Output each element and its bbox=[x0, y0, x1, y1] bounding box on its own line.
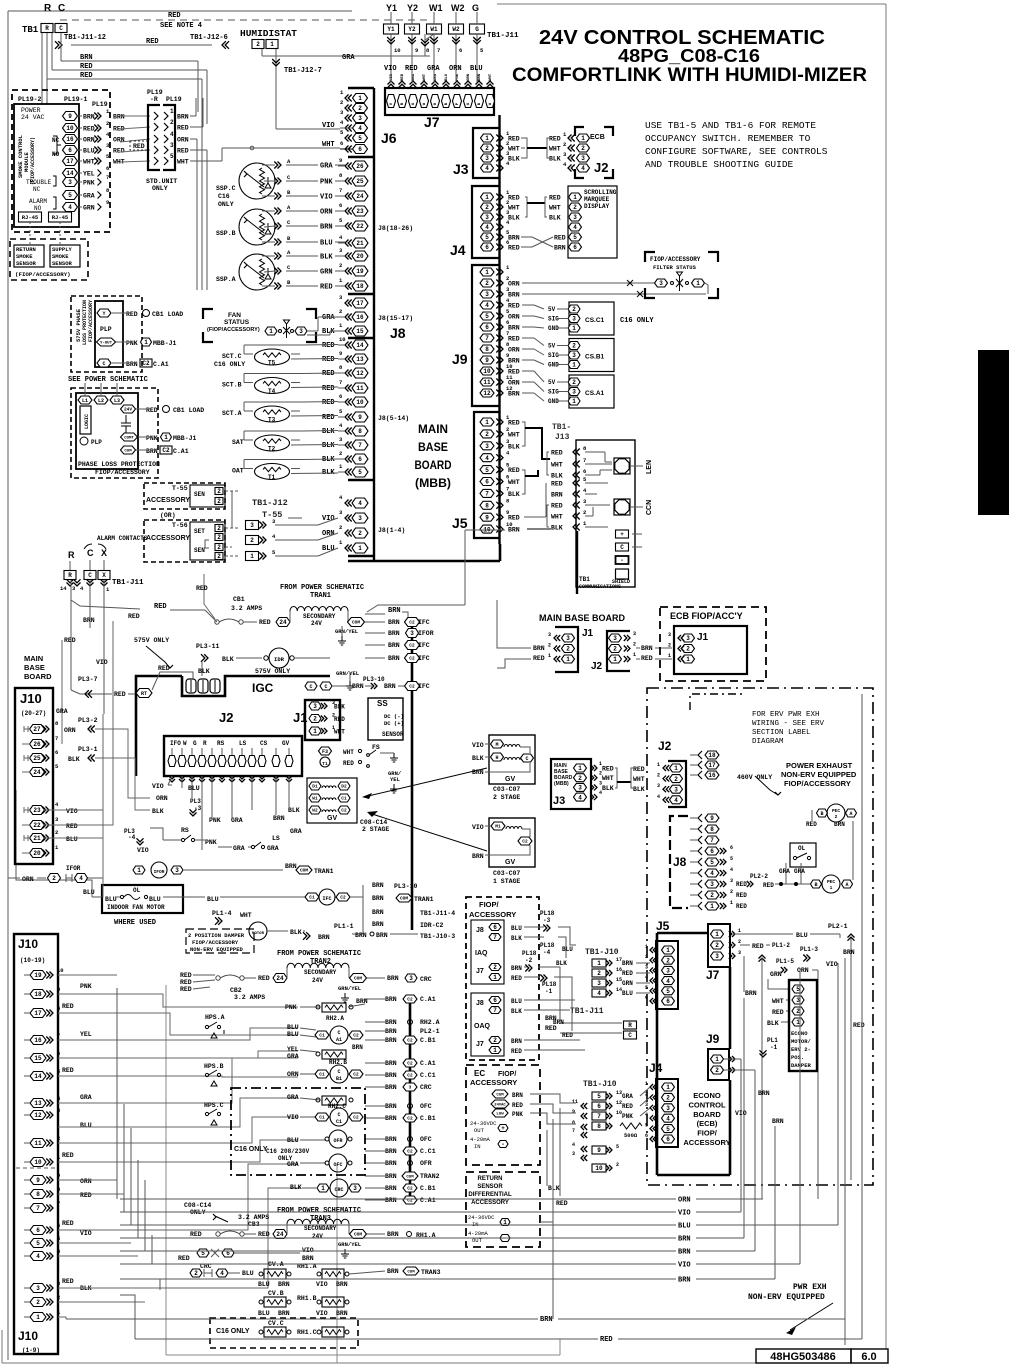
svg-text:BLK: BLK bbox=[68, 756, 80, 763]
svg-text:IAQ: IAQ bbox=[475, 950, 488, 957]
svg-text:WHT: WHT bbox=[772, 998, 784, 1005]
svg-text:M1: M1 bbox=[495, 824, 501, 830]
svg-text:+: + bbox=[501, 1125, 505, 1132]
svg-text:RED: RED bbox=[180, 979, 192, 986]
svg-text:7: 7 bbox=[55, 735, 58, 742]
svg-text:FILTER STATUS: FILTER STATUS bbox=[653, 264, 697, 271]
svg-text:9: 9 bbox=[339, 157, 342, 164]
svg-text:1: 1 bbox=[581, 135, 585, 142]
svg-text:L2: L2 bbox=[98, 398, 104, 404]
svg-text:1: 1 bbox=[170, 108, 174, 115]
svg-text:7: 7 bbox=[493, 934, 497, 941]
svg-text:BRN: BRN bbox=[385, 1185, 397, 1192]
svg-text:C: C bbox=[309, 684, 312, 690]
svg-text:ORN: ORN bbox=[287, 1071, 299, 1078]
svg-text:NO: NO bbox=[34, 205, 42, 212]
svg-text:-: - bbox=[620, 557, 624, 564]
svg-text:BRN: BRN bbox=[843, 949, 855, 956]
svg-text:7: 7 bbox=[485, 335, 489, 342]
svg-text:DC (+): DC (+) bbox=[384, 720, 404, 727]
svg-text:1: 1 bbox=[572, 398, 576, 405]
svg-text:1: 1 bbox=[485, 135, 489, 142]
svg-text:IFOR: IFOR bbox=[418, 630, 434, 637]
svg-text:RED: RED bbox=[508, 336, 520, 343]
svg-text:BRN: BRN bbox=[385, 1115, 397, 1122]
svg-text:D1: D1 bbox=[312, 784, 318, 790]
svg-text:2: 2 bbox=[578, 775, 582, 782]
svg-text:14: 14 bbox=[356, 342, 364, 349]
svg-text:8: 8 bbox=[710, 826, 714, 833]
svg-text:PNK: PNK bbox=[456, 73, 460, 81]
svg-text:6: 6 bbox=[68, 147, 72, 154]
svg-text:4: 4 bbox=[573, 224, 577, 231]
svg-text:16: 16 bbox=[708, 772, 716, 779]
svg-text:C: C bbox=[337, 1112, 340, 1118]
svg-text:48HG503486: 48HG503486 bbox=[770, 1351, 835, 1363]
svg-text:2: 2 bbox=[548, 643, 551, 649]
svg-text:24: 24 bbox=[276, 975, 284, 982]
svg-text:BRN: BRN bbox=[533, 645, 545, 652]
svg-text:BLU: BLU bbox=[678, 1223, 691, 1231]
svg-text:J9: J9 bbox=[706, 1032, 720, 1046]
svg-text:IN: IN bbox=[474, 1143, 481, 1150]
svg-text:OUT: OUT bbox=[474, 1127, 485, 1134]
svg-text:(20-27): (20-27) bbox=[21, 710, 46, 717]
svg-text:CB2: CB2 bbox=[230, 987, 242, 994]
svg-text:3: 3 bbox=[668, 632, 671, 638]
svg-text:PLP: PLP bbox=[91, 439, 102, 446]
svg-text:COMT: COMT bbox=[124, 436, 134, 440]
svg-text:COM: COM bbox=[352, 620, 360, 626]
svg-text:WHT: WHT bbox=[508, 146, 520, 153]
svg-text:3: 3 bbox=[738, 950, 741, 956]
svg-text:AND TROUBLE SHOOTING GUIDE: AND TROUBLE SHOOTING GUIDE bbox=[645, 159, 794, 170]
svg-text:OL: OL bbox=[133, 887, 141, 894]
svg-text:2: 2 bbox=[217, 544, 221, 551]
svg-text:5: 5 bbox=[485, 467, 489, 474]
svg-text:BRN: BRN bbox=[385, 1084, 397, 1091]
svg-text:C2: C2 bbox=[353, 1072, 359, 1078]
svg-text:RED: RED bbox=[562, 1032, 573, 1039]
svg-text:ACCESSORY: ACCESSORY bbox=[469, 910, 516, 919]
svg-text:PNK: PNK bbox=[285, 1004, 297, 1011]
svg-text:2: 2 bbox=[835, 814, 838, 820]
svg-text:FAN: FAN bbox=[228, 312, 241, 319]
svg-text:G: G bbox=[193, 740, 197, 747]
svg-text:RED: RED bbox=[508, 245, 520, 252]
svg-text:OFC: OFC bbox=[420, 1103, 432, 1110]
svg-text:3: 3 bbox=[710, 881, 714, 888]
svg-text:TB1-J11-4: TB1-J11-4 bbox=[420, 910, 455, 917]
svg-text:GRN: GRN bbox=[83, 205, 95, 212]
svg-text:GV: GV bbox=[505, 776, 515, 783]
svg-text:ORN: ORN bbox=[508, 347, 520, 354]
svg-text:2: 2 bbox=[572, 343, 576, 350]
svg-text:2: 2 bbox=[572, 379, 576, 386]
svg-text:5: 5 bbox=[710, 859, 714, 866]
svg-text:8: 8 bbox=[485, 346, 489, 353]
svg-text:4: 4 bbox=[170, 131, 174, 138]
svg-text:OFC: OFC bbox=[420, 1136, 432, 1143]
svg-text:1: 1 bbox=[830, 885, 833, 891]
svg-text:24V: 24V bbox=[312, 977, 323, 984]
svg-text:BRN: BRN bbox=[511, 1038, 522, 1045]
svg-text:C1: C1 bbox=[341, 796, 347, 802]
svg-text:PNK: PNK bbox=[83, 180, 95, 187]
svg-text:2: 2 bbox=[493, 964, 497, 971]
svg-text:3: 3 bbox=[578, 785, 582, 792]
svg-text:PL19: PL19 bbox=[166, 96, 182, 103]
svg-text:2: 2 bbox=[493, 1037, 497, 1044]
svg-text:6: 6 bbox=[358, 146, 362, 153]
svg-text:RED: RED bbox=[602, 766, 614, 773]
svg-text:VIO: VIO bbox=[472, 824, 484, 831]
svg-text:T2: T2 bbox=[268, 446, 276, 453]
svg-text:1: 1 bbox=[566, 656, 570, 663]
svg-text:VIO: VIO bbox=[320, 194, 333, 202]
svg-text:RED: RED bbox=[146, 38, 159, 46]
svg-text:1: 1 bbox=[321, 1185, 325, 1192]
svg-text:TB1-J10: TB1-J10 bbox=[583, 1080, 617, 1089]
svg-text:24 VAC: 24 VAC bbox=[21, 114, 45, 121]
svg-text:BOARD: BOARD bbox=[24, 672, 52, 681]
svg-text:BLK: BLK bbox=[320, 254, 333, 262]
svg-text:C16 ONLY: C16 ONLY bbox=[620, 317, 654, 325]
svg-text:C: C bbox=[525, 756, 528, 762]
svg-text:11: 11 bbox=[483, 379, 491, 386]
svg-text:RED: RED bbox=[641, 655, 653, 662]
svg-text:(OR): (OR) bbox=[160, 512, 176, 519]
svg-text:6: 6 bbox=[493, 924, 497, 931]
svg-text:3: 3 bbox=[572, 389, 576, 396]
svg-text:COMFORTLINK WITH HUMIDI-MIZE: COMFORTLINK WITH HUMIDI-MIZER bbox=[512, 65, 867, 86]
svg-text:OFR: OFR bbox=[420, 1160, 432, 1167]
svg-text:DIAGRAM: DIAGRAM bbox=[752, 738, 784, 746]
svg-text:2: 2 bbox=[645, 1091, 648, 1097]
svg-text:17: 17 bbox=[356, 300, 364, 307]
svg-text:RETURN: RETURN bbox=[478, 1176, 503, 1182]
svg-text:FIOP/ACCESSORY: FIOP/ACCESSORY bbox=[88, 300, 94, 342]
svg-text:3: 3 bbox=[409, 1085, 412, 1091]
svg-text:2: 2 bbox=[686, 646, 690, 653]
svg-text:9: 9 bbox=[339, 350, 342, 357]
svg-text:21: 21 bbox=[356, 240, 364, 247]
svg-text:PL1-3: PL1-3 bbox=[800, 946, 818, 953]
svg-text:FIOP/: FIOP/ bbox=[498, 1071, 516, 1078]
svg-text:BRN: BRN bbox=[508, 325, 520, 332]
svg-text:J2: J2 bbox=[591, 661, 603, 672]
svg-text:J10: J10 bbox=[18, 1329, 38, 1343]
svg-text:RED: RED bbox=[133, 143, 145, 150]
svg-text:16: 16 bbox=[356, 314, 364, 321]
svg-text:1: 1 bbox=[730, 900, 733, 906]
svg-text:C2: C2 bbox=[407, 1149, 413, 1155]
svg-text:BRN: BRN bbox=[678, 1249, 691, 1257]
svg-text:(FIOP/ACCESSORY): (FIOP/ACCESSORY) bbox=[15, 271, 71, 278]
svg-text:ORN: ORN bbox=[64, 727, 76, 734]
svg-text:2: 2 bbox=[36, 1299, 40, 1306]
svg-text:RED: RED bbox=[320, 284, 333, 292]
svg-text:2: 2 bbox=[313, 716, 317, 723]
svg-text:MARQUEE: MARQUEE bbox=[584, 196, 610, 203]
svg-text:Y: Y bbox=[102, 311, 105, 317]
svg-text:3: 3 bbox=[36, 1285, 40, 1292]
svg-text:FROM POWER SCHEMATIC: FROM POWER SCHEMATIC bbox=[277, 950, 361, 958]
svg-text:17: 17 bbox=[708, 762, 716, 769]
svg-text:3: 3 bbox=[573, 214, 577, 221]
svg-text:RED: RED bbox=[511, 975, 522, 982]
svg-text:(FIOP/ACCESSORY): (FIOP/ACCESSORY) bbox=[30, 137, 36, 185]
svg-text:PL19-2: PL19-2 bbox=[18, 96, 42, 103]
svg-text:RED: RED bbox=[158, 665, 170, 672]
svg-text:G: G bbox=[472, 3, 479, 13]
svg-text:18: 18 bbox=[34, 991, 42, 998]
svg-text:ALARM: ALARM bbox=[29, 198, 47, 205]
svg-text:5: 5 bbox=[730, 856, 733, 862]
svg-text:ORN: ORN bbox=[434, 73, 438, 81]
svg-text:TB1-J12-6: TB1-J12-6 bbox=[190, 34, 228, 42]
svg-text:9: 9 bbox=[572, 1109, 575, 1115]
svg-text:C2: C2 bbox=[409, 656, 415, 662]
svg-text:GRN/YEL: GRN/YEL bbox=[336, 670, 360, 677]
svg-text:RED: RED bbox=[180, 972, 192, 979]
svg-text:GRN: GRN bbox=[622, 980, 633, 987]
svg-text:GRA: GRA bbox=[342, 54, 355, 62]
svg-text:RED: RED bbox=[177, 148, 189, 155]
svg-text:PHASE LOSS PROTECTION: PHASE LOSS PROTECTION bbox=[78, 461, 160, 468]
svg-text:RED: RED bbox=[128, 613, 140, 620]
svg-text:RED: RED bbox=[736, 892, 747, 899]
svg-text:C1: C1 bbox=[319, 1033, 325, 1039]
svg-text:BRN: BRN bbox=[83, 617, 95, 624]
svg-text:WHT: WHT bbox=[549, 146, 561, 153]
svg-text:10: 10 bbox=[394, 47, 401, 54]
svg-text:PWR EXH: PWR EXH bbox=[793, 1283, 827, 1292]
svg-text:C1: C1 bbox=[319, 1115, 325, 1121]
svg-text:-3: -3 bbox=[543, 917, 551, 924]
svg-text:1: 1 bbox=[144, 339, 148, 346]
svg-text:3: 3 bbox=[657, 783, 660, 789]
svg-text:RED: RED bbox=[554, 235, 566, 242]
svg-text:5: 5 bbox=[666, 988, 670, 995]
svg-text:SCT.A: SCT.A bbox=[222, 410, 242, 417]
svg-text:ORN: ORN bbox=[678, 1197, 691, 1205]
svg-text:COM: COM bbox=[496, 1093, 504, 1097]
svg-text:3: 3 bbox=[299, 328, 303, 335]
svg-text:OFR: OFR bbox=[333, 1138, 342, 1144]
svg-text:SENSOR: SENSOR bbox=[16, 260, 37, 267]
svg-text:ECB FIOP/ACC'Y: ECB FIOP/ACC'Y bbox=[670, 611, 743, 621]
svg-text:5: 5 bbox=[170, 153, 174, 160]
svg-text:RED: RED bbox=[600, 1336, 613, 1344]
svg-text:ONLY: ONLY bbox=[218, 201, 234, 208]
svg-text:4: 4 bbox=[597, 990, 601, 997]
svg-text:RED: RED bbox=[508, 303, 520, 310]
svg-text:3: 3 bbox=[645, 964, 648, 970]
svg-text:COM: COM bbox=[406, 1175, 414, 1179]
svg-text:BLK: BLK bbox=[548, 1185, 560, 1192]
svg-text:IFO: IFO bbox=[170, 740, 181, 747]
svg-text:PL18: PL18 bbox=[540, 942, 555, 949]
svg-text:VIO: VIO bbox=[678, 1210, 691, 1218]
svg-text:25: 25 bbox=[356, 178, 364, 185]
svg-text:A: A bbox=[849, 811, 852, 817]
svg-text:6.0: 6.0 bbox=[861, 1351, 876, 1363]
svg-text:6: 6 bbox=[710, 848, 714, 855]
svg-text:SSP.B: SSP.B bbox=[216, 230, 236, 237]
svg-text:4: 4 bbox=[485, 302, 489, 309]
svg-text:6: 6 bbox=[485, 324, 489, 331]
svg-text:C.C1: C.C1 bbox=[420, 1148, 436, 1155]
svg-text:BRN: BRN bbox=[80, 54, 93, 62]
svg-text:BLU: BLU bbox=[258, 1310, 270, 1317]
svg-text:BLK: BLK bbox=[508, 156, 520, 163]
svg-text:5: 5 bbox=[485, 234, 489, 241]
svg-text:GRA: GRA bbox=[427, 65, 440, 73]
svg-text:3: 3 bbox=[485, 155, 489, 162]
svg-text:3: 3 bbox=[358, 115, 362, 122]
svg-text:BRN: BRN bbox=[508, 391, 520, 398]
svg-text:BLU: BLU bbox=[562, 946, 573, 953]
svg-text:BRN: BRN bbox=[678, 1236, 691, 1244]
svg-text:BLU: BLU bbox=[287, 1024, 299, 1031]
svg-text:C.C1: C.C1 bbox=[420, 1072, 436, 1079]
svg-text:PEC: PEC bbox=[832, 808, 840, 814]
svg-text:C: C bbox=[620, 544, 624, 551]
svg-text:BRN: BRN bbox=[336, 1281, 348, 1288]
svg-text:BLK: BLK bbox=[633, 786, 645, 793]
svg-text:26: 26 bbox=[356, 163, 364, 170]
svg-text:J8(5-14): J8(5-14) bbox=[378, 415, 409, 422]
svg-text:CRC: CRC bbox=[334, 1187, 343, 1193]
svg-text:VIO: VIO bbox=[316, 1310, 328, 1317]
svg-text:Y1: Y1 bbox=[387, 26, 395, 33]
svg-text:ORN: ORN bbox=[797, 967, 809, 974]
svg-text:C: C bbox=[102, 361, 105, 367]
svg-text:1: 1 bbox=[715, 931, 719, 938]
svg-text:4: 4 bbox=[79, 875, 83, 882]
svg-text:5: 5 bbox=[645, 985, 648, 991]
svg-text:GRA: GRA bbox=[287, 1053, 299, 1060]
svg-text:BLK: BLK bbox=[551, 473, 563, 480]
svg-text:4: 4 bbox=[645, 1112, 648, 1118]
svg-text:16: 16 bbox=[34, 1037, 42, 1044]
svg-text:5: 5 bbox=[597, 1093, 601, 1100]
svg-text:RED: RED bbox=[80, 72, 93, 80]
svg-text:J5: J5 bbox=[452, 515, 468, 531]
svg-text:ORN: ORN bbox=[156, 795, 168, 802]
svg-text:5: 5 bbox=[616, 1144, 619, 1150]
svg-text:VIO: VIO bbox=[472, 742, 484, 749]
svg-text:6: 6 bbox=[485, 479, 489, 486]
svg-text:RED: RED bbox=[83, 126, 95, 133]
svg-text:1: 1 bbox=[666, 947, 670, 954]
svg-text:1: 1 bbox=[645, 944, 648, 950]
svg-text:GRA: GRA bbox=[322, 314, 335, 322]
svg-text:CS.B1: CS.B1 bbox=[585, 354, 605, 361]
svg-text:BLU: BLU bbox=[287, 1137, 299, 1144]
svg-text:1: 1 bbox=[270, 41, 274, 48]
svg-text:3: 3 bbox=[666, 1105, 670, 1112]
svg-text:3: 3 bbox=[313, 703, 317, 710]
svg-text:PEC: PEC bbox=[827, 879, 835, 885]
svg-text:3: 3 bbox=[358, 515, 362, 522]
svg-text:BRN: BRN bbox=[388, 655, 400, 662]
svg-text:24-36VDC: 24-36VDC bbox=[468, 1214, 495, 1221]
svg-text:R: R bbox=[628, 1022, 632, 1029]
svg-text:GRA: GRA bbox=[83, 193, 95, 200]
svg-text:RED: RED bbox=[511, 1048, 522, 1055]
svg-text:J8: J8 bbox=[476, 927, 484, 934]
svg-text:CB1: CB1 bbox=[233, 596, 245, 603]
svg-text:RED: RED bbox=[62, 1152, 74, 1159]
svg-text:FROM POWER SCHEMATIC: FROM POWER SCHEMATIC bbox=[277, 1207, 361, 1215]
svg-text:GRA: GRA bbox=[233, 845, 245, 852]
svg-text:MODULE: MODULE bbox=[23, 151, 30, 172]
svg-text:WHT: WHT bbox=[551, 514, 563, 521]
svg-text:9: 9 bbox=[36, 1177, 40, 1184]
svg-text:WHT: WHT bbox=[83, 159, 95, 166]
svg-text:Y1: Y1 bbox=[386, 3, 397, 13]
svg-text:7: 7 bbox=[57, 1200, 60, 1207]
svg-text:BRN: BRN bbox=[745, 990, 757, 997]
svg-text:TB1-J10-3: TB1-J10-3 bbox=[420, 933, 455, 940]
svg-text:PNK: PNK bbox=[205, 839, 217, 846]
svg-text:FIOP/ACCESSORY: FIOP/ACCESSORY bbox=[192, 939, 239, 946]
svg-text:H: H bbox=[495, 755, 498, 761]
svg-text:3.2 AMPS: 3.2 AMPS bbox=[231, 605, 262, 612]
svg-text:6: 6 bbox=[106, 165, 109, 172]
svg-text:5V: 5V bbox=[548, 306, 556, 313]
svg-text:1: 1 bbox=[633, 652, 636, 658]
svg-text:8: 8 bbox=[485, 502, 489, 509]
svg-text:BLU: BLU bbox=[622, 990, 633, 997]
svg-text:IFOR: IFOR bbox=[154, 869, 165, 875]
svg-text:(MBB): (MBB) bbox=[415, 476, 451, 490]
svg-text:RED: RED bbox=[168, 12, 181, 20]
svg-text:4-20mA: 4-20mA bbox=[470, 1136, 491, 1143]
svg-text:NON-ERV EQUIPPED: NON-ERV EQUIPPED bbox=[190, 946, 244, 953]
svg-text:C16 ONLY: C16 ONLY bbox=[234, 1146, 268, 1153]
svg-text:RED: RED bbox=[549, 195, 561, 202]
svg-text:6: 6 bbox=[36, 1227, 40, 1234]
svg-text:14: 14 bbox=[60, 585, 67, 592]
svg-text:5V: 5V bbox=[548, 343, 556, 350]
svg-text:GRA: GRA bbox=[287, 1161, 299, 1168]
svg-text:BRN: BRN bbox=[146, 448, 158, 455]
svg-text:6: 6 bbox=[666, 998, 670, 1005]
svg-text:8: 8 bbox=[572, 1120, 575, 1126]
svg-text:7: 7 bbox=[597, 1113, 601, 1120]
svg-text:BRN: BRN bbox=[385, 1072, 397, 1079]
svg-text:10: 10 bbox=[66, 125, 74, 132]
svg-text:PNK: PNK bbox=[622, 1113, 633, 1120]
svg-text:3: 3 bbox=[645, 1102, 648, 1108]
svg-text:BRN: BRN bbox=[388, 619, 400, 626]
svg-text:1: 1 bbox=[573, 194, 577, 201]
svg-text:17: 17 bbox=[34, 1010, 42, 1017]
svg-text:11: 11 bbox=[572, 1099, 578, 1105]
svg-text:OAQ: OAQ bbox=[474, 1023, 491, 1030]
svg-text:POS.: POS. bbox=[791, 1054, 804, 1061]
svg-text:1: 1 bbox=[578, 765, 582, 772]
svg-text:RED: RED bbox=[62, 1003, 74, 1010]
svg-text:BLK: BLK bbox=[551, 525, 563, 532]
svg-text:RED: RED bbox=[633, 766, 645, 773]
svg-text:PL3-10: PL3-10 bbox=[394, 883, 418, 890]
svg-text:2: 2 bbox=[340, 99, 343, 106]
svg-text:WHERE USED: WHERE USED bbox=[114, 919, 156, 927]
